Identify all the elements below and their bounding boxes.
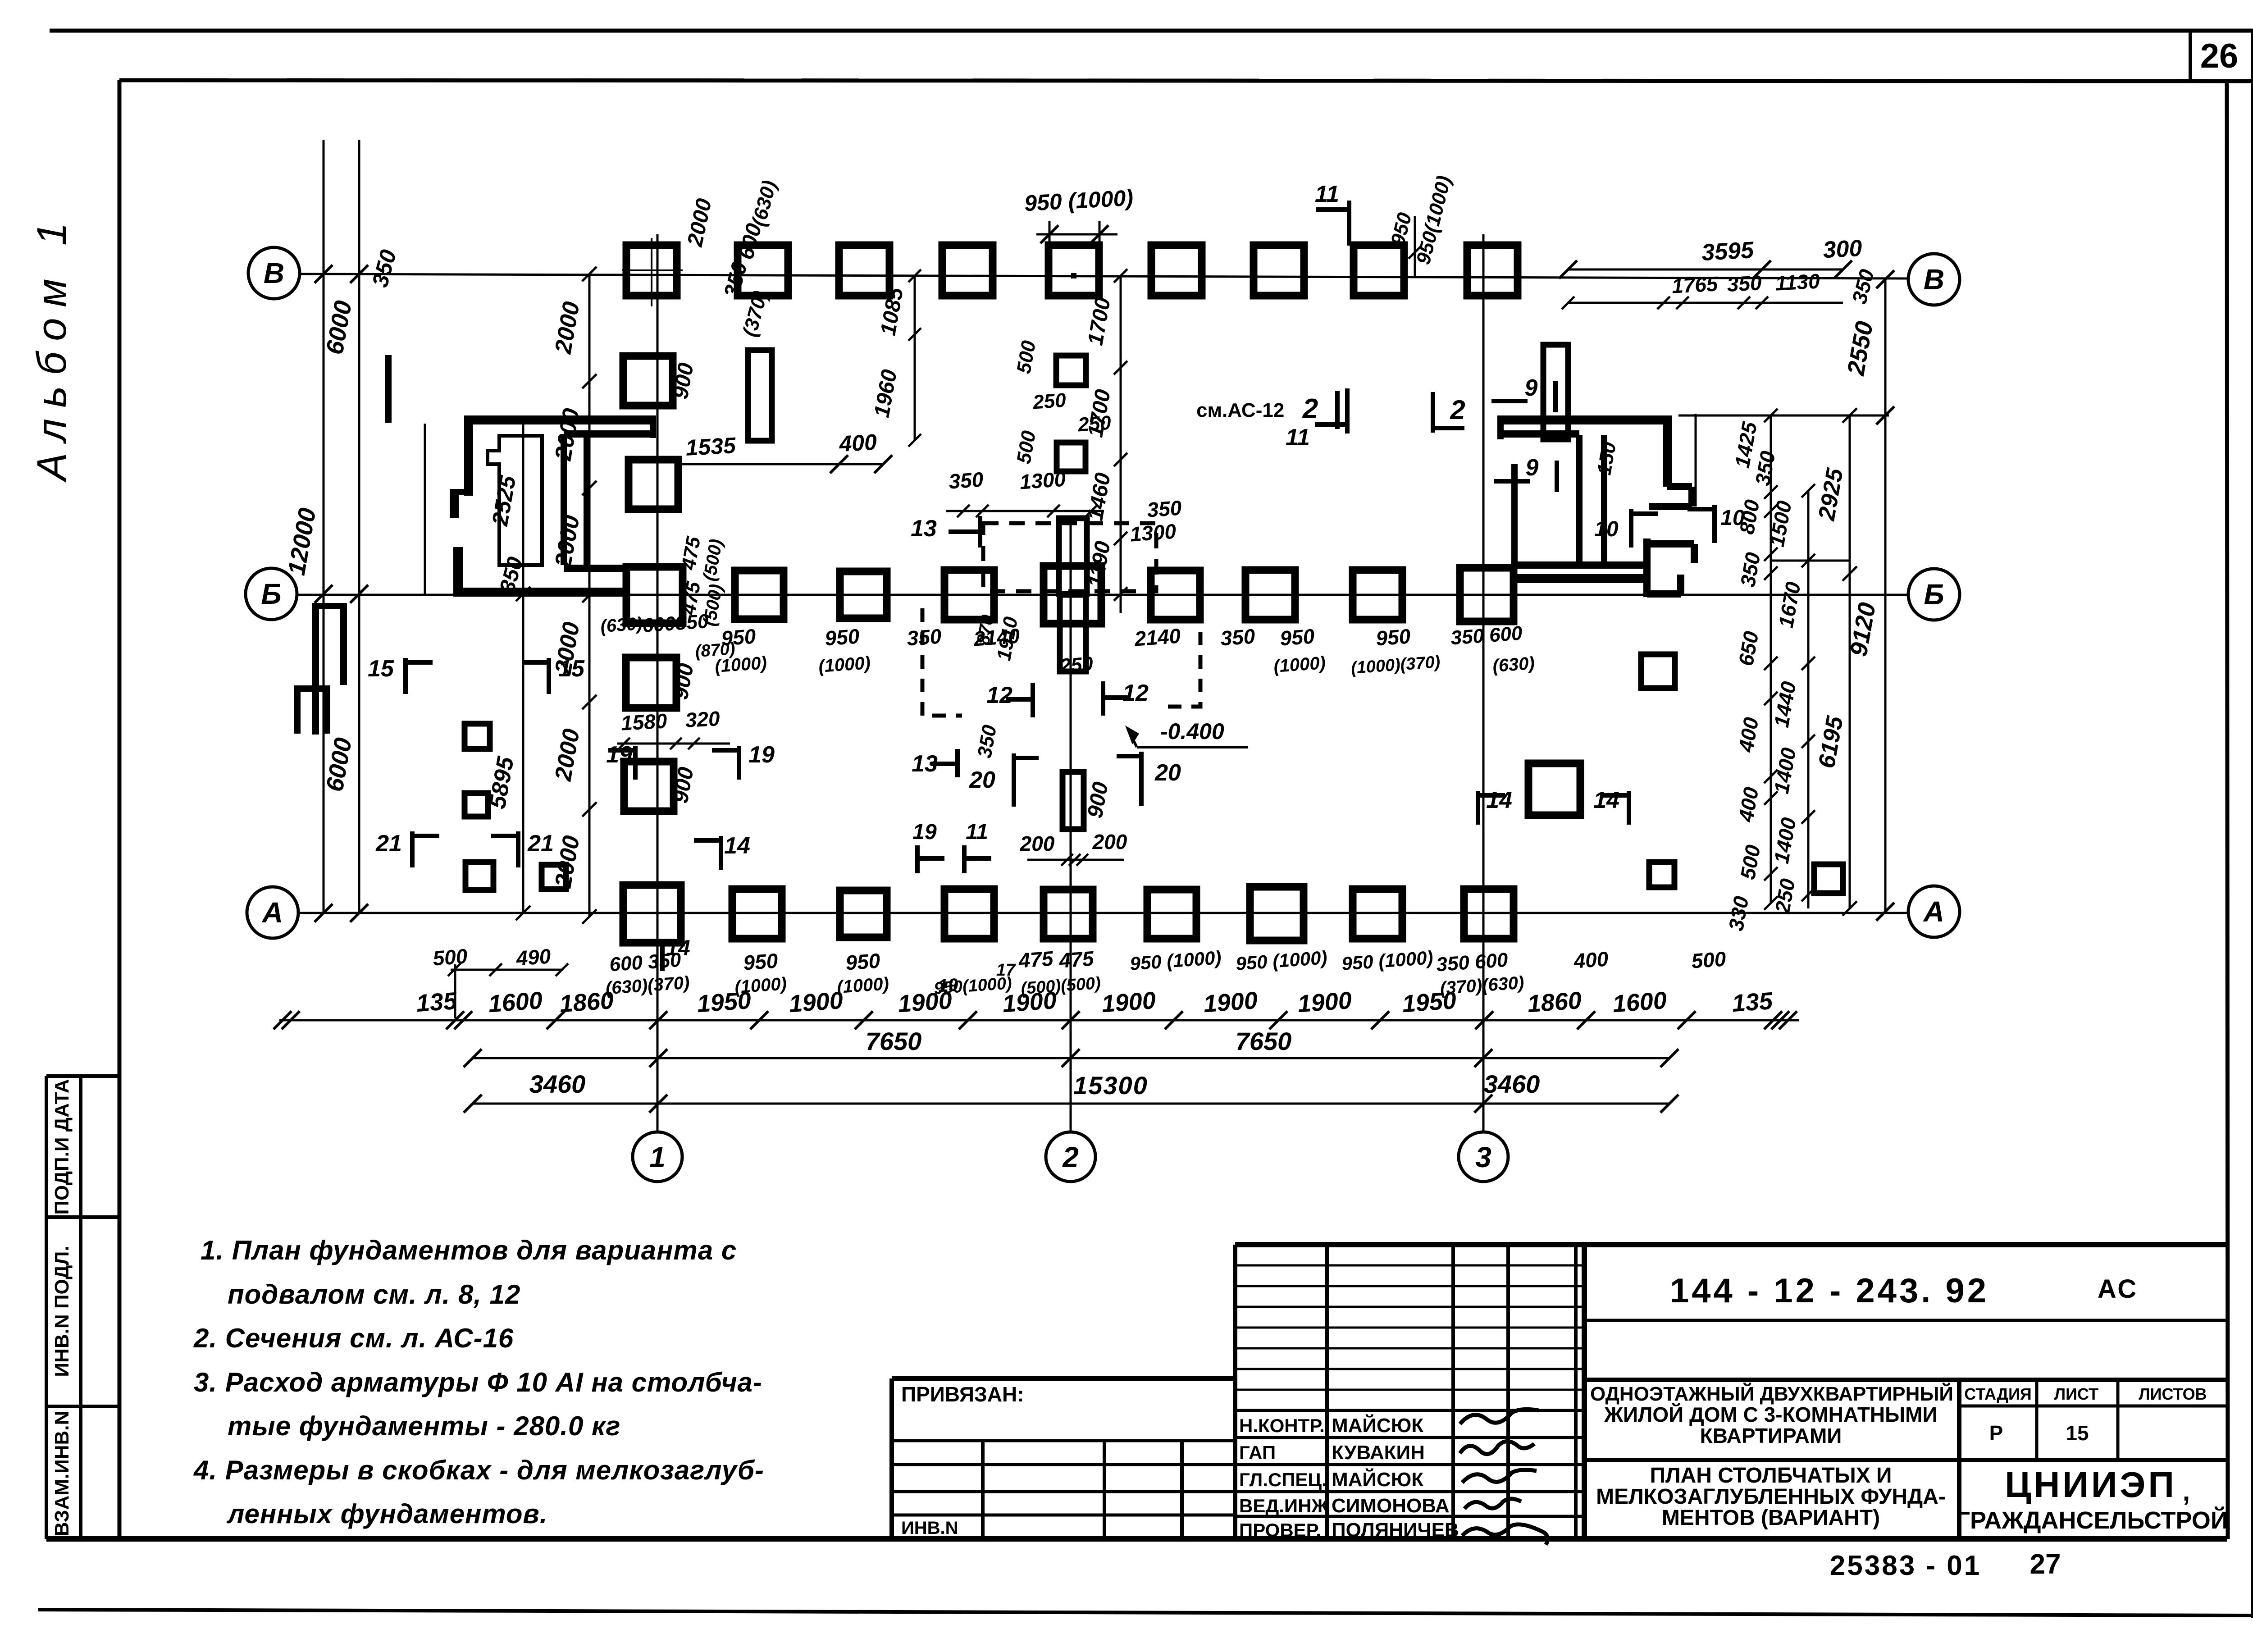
svg-text:950: 950 <box>1279 624 1316 650</box>
svg-text:14: 14 <box>1486 787 1512 813</box>
svg-text:3460: 3460 <box>1484 1070 1540 1098</box>
svg-text:200: 200 <box>1092 830 1127 853</box>
svg-text:2: 2 <box>1302 393 1318 424</box>
svg-text:ОДНОЭТАЖНЫЙ ДВУХКВАРТИРНЫЙ: ОДНОЭТАЖНЫЙ ДВУХКВАРТИРНЫЙ <box>1590 1382 1953 1405</box>
svg-text:27: 27 <box>2030 1549 2061 1580</box>
svg-text:350: 350 <box>1726 271 1762 296</box>
svg-text:3460: 3460 <box>529 1070 586 1098</box>
svg-text:20: 20 <box>1154 760 1181 786</box>
svg-text:7650: 7650 <box>1236 1027 1292 1055</box>
svg-text:350: 350 <box>1146 496 1183 521</box>
svg-text:1900: 1900 <box>1101 987 1157 1018</box>
svg-text:25383 - 01: 25383 - 01 <box>1830 1550 1981 1581</box>
svg-text:ленных фундаментов.: ленных фундаментов. <box>226 1499 547 1529</box>
svg-text:21: 21 <box>375 831 402 857</box>
svg-text:475: 475 <box>1017 946 1055 972</box>
svg-text:950: 950 <box>845 949 881 974</box>
svg-text:13: 13 <box>911 516 937 542</box>
svg-text:В: В <box>264 257 284 289</box>
svg-text:10: 10 <box>1594 517 1619 541</box>
svg-text:4. Размеры в скобках - для мел: 4. Размеры в скобках - для мелкозаглуб- <box>193 1455 764 1485</box>
svg-text:320: 320 <box>684 707 721 732</box>
svg-text:2: 2 <box>1062 1141 1079 1173</box>
svg-text:ИНВ.N ПОДЛ.: ИНВ.N ПОДЛ. <box>51 1246 73 1377</box>
svg-text:1130: 1130 <box>1774 269 1820 295</box>
svg-text:ВЗАМ.ИНВ.N: ВЗАМ.ИНВ.N <box>51 1411 73 1537</box>
svg-text:250: 250 <box>1059 653 1094 677</box>
svg-text:9: 9 <box>1525 375 1538 401</box>
svg-text:1300: 1300 <box>1129 520 1177 546</box>
svg-text:А: А <box>1923 895 1944 928</box>
svg-text:250: 250 <box>1032 389 1067 413</box>
svg-text:МАЙСЮК: МАЙСЮК <box>1332 1414 1423 1437</box>
svg-text:12: 12 <box>1122 680 1149 706</box>
svg-text:9: 9 <box>1526 455 1539 481</box>
svg-text:ПРИВЯЗАН:: ПРИВЯЗАН: <box>901 1383 1024 1406</box>
svg-text:135: 135 <box>1731 987 1774 1017</box>
svg-text:КУВАКИН: КУВАКИН <box>1332 1442 1425 1464</box>
svg-text:490: 490 <box>515 944 552 970</box>
svg-text:Р: Р <box>1989 1421 2003 1445</box>
svg-text:400: 400 <box>1573 947 1610 972</box>
svg-text:1765: 1765 <box>1671 272 1719 297</box>
svg-text:12: 12 <box>986 682 1012 708</box>
svg-text:11: 11 <box>1315 181 1339 207</box>
svg-text:В: В <box>1924 263 1944 296</box>
svg-text:1580: 1580 <box>620 709 668 735</box>
svg-text:21: 21 <box>527 831 554 857</box>
svg-text:1. План фундаментов для вариан: 1. План фундаментов для варианта с <box>201 1235 737 1265</box>
svg-text:500: 500 <box>432 944 469 970</box>
svg-text:(1000): (1000) <box>714 653 767 676</box>
svg-text:20: 20 <box>969 767 995 793</box>
svg-text:15: 15 <box>558 656 585 682</box>
svg-text:15300: 15300 <box>1073 1071 1148 1100</box>
svg-text:Н.КОНТР.: Н.КОНТР. <box>1239 1415 1325 1436</box>
svg-text:ВЕД.ИНЖ: ВЕД.ИНЖ <box>1239 1495 1329 1516</box>
svg-text:10: 10 <box>1720 506 1745 530</box>
svg-text:,: , <box>2183 1476 2190 1506</box>
svg-text:МЕНТОВ (ВАРИАНТ): МЕНТОВ (ВАРИАНТ) <box>1662 1506 1880 1530</box>
svg-text:Альбом 1: Альбом 1 <box>29 212 75 483</box>
svg-text:СТАДИЯ: СТАДИЯ <box>1964 1385 2032 1403</box>
svg-text:19: 19 <box>912 820 937 844</box>
svg-text:тые фундаменты - 280.0 кг: тые фундаменты - 280.0 кг <box>228 1411 620 1441</box>
svg-text:подвалом см. л. 8, 12: подвалом см. л. 8, 12 <box>228 1279 520 1310</box>
svg-text:15: 15 <box>368 656 394 682</box>
svg-text:ПОДП.И ДАТА: ПОДП.И ДАТА <box>51 1079 73 1214</box>
svg-text:СИМОНОВА: СИМОНОВА <box>1332 1495 1450 1517</box>
svg-text:11: 11 <box>1286 424 1310 451</box>
svg-text:(1000): (1000) <box>734 974 787 997</box>
svg-text:1900: 1900 <box>788 987 844 1018</box>
svg-text:350: 350 <box>1220 624 1256 650</box>
svg-text:ЖИЛОЙ ДОМ С 3-КОМНАТНЫМИ: ЖИЛОЙ ДОМ С 3-КОМНАТНЫМИ <box>1604 1403 1937 1426</box>
svg-text:19: 19 <box>606 742 632 768</box>
svg-text:14: 14 <box>666 936 690 960</box>
svg-text:15: 15 <box>2066 1421 2089 1445</box>
svg-text:ГЛ.СПЕЦ.: ГЛ.СПЕЦ. <box>1239 1469 1327 1490</box>
svg-text:950: 950 <box>721 624 757 650</box>
svg-text:19: 19 <box>748 742 775 768</box>
svg-text:(1000): (1000) <box>836 974 889 997</box>
svg-text:350: 350 <box>948 467 985 493</box>
svg-text:ПРОВЕР.: ПРОВЕР. <box>1239 1520 1321 1541</box>
svg-text:26: 26 <box>2200 37 2239 75</box>
svg-text:2140: 2140 <box>1133 624 1181 651</box>
svg-text:135: 135 <box>415 987 458 1017</box>
svg-text:ПЛАН СТОЛБЧАТЫХ И: ПЛАН СТОЛБЧАТЫХ И <box>1650 1464 1892 1488</box>
svg-text:250: 250 <box>1077 411 1112 436</box>
svg-text:17: 17 <box>996 961 1016 980</box>
svg-text:144 - 12 - 243. 92: 144 - 12 - 243. 92 <box>1670 1272 1989 1310</box>
svg-text:1860: 1860 <box>1527 987 1583 1018</box>
svg-text:(630): (630) <box>1492 653 1535 676</box>
svg-text:11: 11 <box>966 820 988 844</box>
svg-text:200: 200 <box>1020 832 1055 855</box>
svg-text:2. Сечения см. л. АС-16: 2. Сечения см. л. АС-16 <box>193 1323 514 1353</box>
svg-text:(630): (630) <box>600 614 643 636</box>
svg-text:1900: 1900 <box>1203 987 1259 1018</box>
svg-text:ЛИСТОВ: ЛИСТОВ <box>2139 1385 2207 1403</box>
svg-text:МЕЛКОЗАГЛУБЛЕННЫХ ФУНДА-: МЕЛКОЗАГЛУБЛЕННЫХ ФУНДА- <box>1596 1485 1946 1509</box>
svg-text:7650: 7650 <box>866 1027 922 1055</box>
svg-text:1600: 1600 <box>488 987 543 1018</box>
svg-text:А: А <box>261 896 283 929</box>
svg-text:Б: Б <box>1924 578 1944 611</box>
svg-text:950: 950 <box>743 949 779 974</box>
svg-text:400: 400 <box>838 429 877 456</box>
svg-text:14: 14 <box>724 833 750 859</box>
svg-text:950: 950 <box>824 624 861 650</box>
svg-text:300: 300 <box>1822 235 1863 263</box>
svg-text:ГРАЖДАНСЕЛЬСТРОЙ: ГРАЖДАНСЕЛЬСТРОЙ <box>1956 1506 2228 1534</box>
svg-text:3. Расход арматуры Ф 10 АI на: 3. Расход арматуры Ф 10 АI на столбча- <box>194 1367 762 1397</box>
svg-text:1300: 1300 <box>1019 467 1067 494</box>
svg-text:ИНВ.N: ИНВ.N <box>901 1518 958 1538</box>
svg-text:ЦНИИЭП: ЦНИИЭП <box>2005 1465 2177 1505</box>
svg-text:350: 350 <box>906 624 943 650</box>
svg-text:МАЙСЮК: МАЙСЮК <box>1332 1468 1423 1491</box>
svg-text:475: 475 <box>1058 946 1095 972</box>
svg-text:3595: 3595 <box>1701 237 1755 266</box>
svg-text:КВАРТИРАМИ: КВАРТИРАМИ <box>1700 1424 1842 1447</box>
svg-text:2: 2 <box>1450 395 1465 425</box>
svg-text:3: 3 <box>1475 1141 1491 1173</box>
svg-text:см.АС-12: см.АС-12 <box>1196 399 1284 421</box>
svg-text:ПОЛЯНИЧЕВ: ПОЛЯНИЧЕВ <box>1332 1519 1459 1541</box>
svg-text:(1000): (1000) <box>1273 653 1326 676</box>
svg-text:АС: АС <box>2098 1274 2138 1304</box>
svg-text:Б: Б <box>261 578 281 610</box>
svg-text:500: 500 <box>1691 947 1727 972</box>
svg-text:-0.400: -0.400 <box>1160 719 1224 744</box>
svg-text:1535: 1535 <box>685 433 737 461</box>
svg-text:950: 950 <box>1375 624 1412 650</box>
svg-text:ГАП: ГАП <box>1239 1442 1276 1463</box>
svg-text:(1000): (1000) <box>818 653 871 676</box>
svg-text:1: 1 <box>649 1141 666 1173</box>
svg-text:ЛИСТ: ЛИСТ <box>2054 1385 2098 1403</box>
svg-text:1900: 1900 <box>1297 987 1353 1018</box>
svg-text:1600: 1600 <box>1612 987 1668 1018</box>
svg-text:14: 14 <box>1593 787 1619 813</box>
